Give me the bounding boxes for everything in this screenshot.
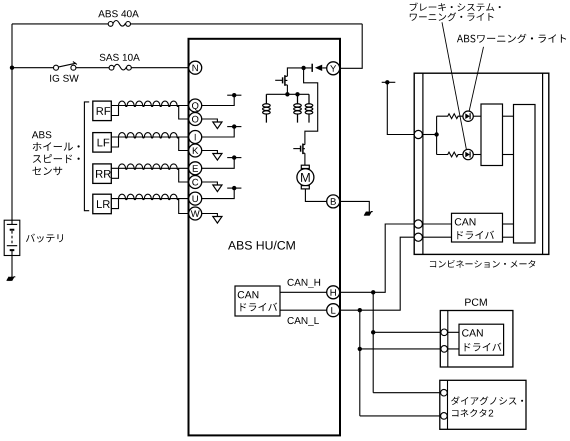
label CAN_H — [288, 279, 321, 288]
wire CAN L trunk down — [359, 310, 361, 416]
pin N — [189, 61, 202, 74]
node L branch — [358, 308, 362, 312]
pin E — [189, 162, 202, 175]
node rail Q1 — [285, 92, 289, 96]
label brake system warning light line1 — [410, 3, 501, 12]
wire RR signal lead — [111, 167, 188, 169]
pin W — [189, 207, 202, 220]
rail internal supply (RF) — [227, 94, 241, 96]
ground battery — [7, 277, 15, 281]
wire lamp2 to driver IC — [473, 154, 481, 156]
label PCM — [465, 299, 487, 306]
pin Y — [327, 62, 340, 75]
label wheel speed sensor line3 — [33, 154, 80, 163]
wire IC to MCU row2 — [503, 154, 514, 156]
IC lamp driver (meter) — [481, 104, 503, 166]
node IG feed — [385, 80, 389, 84]
wire motor to pin B — [305, 189, 326, 202]
wire IG feed — [12, 67, 189, 69]
rail internal supply (LR) — [227, 187, 241, 189]
node rail LR — [232, 186, 236, 190]
arrow internal ground RF — [213, 122, 222, 129]
wire LR signal lead — [111, 198, 188, 200]
pin U — [189, 192, 202, 205]
node meter split — [434, 132, 438, 136]
pin DLC CAN H — [441, 389, 448, 396]
wire pin tap LR high — [202, 188, 235, 199]
wire battery vertical — [11, 24, 13, 220]
label ABS warning light — [457, 34, 566, 43]
wire H to PCM — [373, 331, 441, 333]
node L to PCM — [358, 347, 362, 351]
pin B — [327, 195, 340, 208]
label CAN driver (ABS) — [240, 303, 277, 312]
wire pin tap RF low — [202, 119, 218, 122]
wire top feed to Y — [340, 24, 362, 68]
wire L to PCM — [360, 348, 441, 350]
wire FET1 drain to diode node — [287, 68, 303, 76]
wire CAN H trunk down — [372, 292, 374, 392]
wire pin tap LF high — [202, 127, 235, 137]
label brake system warning light line2 — [410, 12, 494, 21]
wire PCM pins to CAN box — [448, 332, 460, 349]
inductor solenoid valve L1 — [263, 94, 271, 122]
lamp ABS warning light — [463, 149, 473, 159]
resistor brake warning — [437, 114, 463, 119]
motor M (pump) — [297, 165, 314, 189]
arrow internal ground RR — [213, 185, 222, 192]
battery BT — [4, 220, 20, 255]
pin H — [327, 286, 340, 299]
label DLC line2 — [452, 409, 487, 417]
sensor LF box — [93, 133, 112, 153]
label LF — [98, 139, 110, 147]
arrow internal ground LR — [213, 217, 222, 224]
node diode junction — [301, 66, 305, 70]
label SAS 10A — [100, 54, 140, 61]
wire meter CAN box to MCU 1 — [503, 223, 514, 225]
pin C — [189, 176, 202, 189]
fuse SAS 10A — [109, 64, 131, 70]
wire Q2 source to motor — [304, 153, 306, 165]
wire LF return lead — [179, 137, 189, 151]
pin PCM CAN H — [441, 329, 448, 336]
inductor solenoid valve L3 — [305, 94, 313, 122]
wire pin tap LR low — [202, 214, 218, 217]
node rail solenoid2 — [295, 92, 299, 96]
PCM box — [440, 311, 513, 368]
sensor RR box — [93, 164, 112, 184]
label combination meter — [430, 260, 536, 268]
coil LF (sensor winding) — [111, 133, 178, 147]
wire RF return lead — [179, 106, 189, 120]
node H branch — [371, 290, 375, 294]
rail internal supply (LF) — [227, 126, 241, 128]
coil RF (sensor winding) — [111, 101, 178, 115]
wire H to DLC — [373, 392, 441, 394]
wire Q1 source to solenoid rail — [286, 85, 288, 94]
pin meter CAN H — [414, 220, 422, 228]
wire LF signal lead — [111, 136, 188, 138]
label CAN (meter) — [455, 218, 476, 225]
pin O — [189, 113, 202, 126]
node battery/IG junction — [10, 66, 14, 70]
label CAN driver (meter) — [457, 231, 494, 240]
wire meter pin L to CAN box — [422, 236, 451, 238]
label IG SW — [50, 75, 78, 82]
label LR — [97, 200, 110, 208]
sensor RF box — [93, 101, 112, 121]
CAN driver box (PCM) — [459, 324, 504, 355]
pin L — [327, 304, 340, 317]
pin K — [189, 144, 202, 157]
ground motor B — [364, 212, 372, 216]
node rail RF — [232, 93, 236, 97]
coil RR (sensor winding) — [111, 164, 178, 178]
label battery — [26, 234, 63, 243]
combination meter box — [414, 73, 549, 254]
pin DLC CAN L — [441, 413, 448, 420]
label CAN (PCM) — [462, 329, 483, 336]
wire L to DLC — [360, 415, 441, 417]
ABS HU/CM unit box — [189, 39, 341, 436]
wire IG feed to meter — [387, 82, 414, 134]
label CAN driver (PCM) — [465, 343, 502, 352]
wire pin tap RR low — [202, 182, 218, 185]
switch IG SW — [54, 62, 77, 71]
wire CAN_L — [280, 309, 327, 311]
rail internal supply (RR) — [227, 157, 241, 159]
wire IC to MCU row1 — [503, 115, 514, 117]
bracket sensor group — [84, 102, 89, 211]
label ABS 40A — [98, 10, 139, 17]
pin meter IG — [414, 130, 422, 138]
wire RR return lead — [179, 168, 189, 182]
IC meter MCU — [514, 105, 536, 244]
label RR — [96, 170, 111, 178]
node H to PCM — [371, 330, 375, 334]
resistor ABS warning — [437, 152, 463, 157]
label ABS wheel speed sensor (ABS) — [32, 131, 52, 138]
diode D1 — [304, 64, 327, 72]
pin Q — [189, 99, 202, 112]
leader brake warning light — [442, 22, 466, 149]
wire CAN_H — [280, 291, 327, 293]
label wheel speed sensor line2 — [33, 142, 80, 151]
wire battery B+ feed (top) — [12, 23, 362, 25]
leader ABS warning light — [469, 47, 483, 111]
label CAN_L — [288, 317, 319, 326]
label DLC line1 — [451, 396, 523, 405]
node rail LF — [232, 124, 236, 128]
sensor LR box — [93, 194, 112, 214]
wire pin tap LF low — [202, 151, 218, 154]
wire meter pin H to CAN box — [422, 223, 451, 225]
transistor Q2 (FET) — [293, 144, 305, 155]
wire split vertical — [436, 116, 438, 154]
pin I — [189, 131, 202, 144]
wire pin tap RR high — [202, 158, 235, 169]
wire meter feed split — [422, 134, 436, 136]
inductor solenoid valve L2 — [294, 94, 302, 122]
wire pin B to ground — [340, 201, 370, 211]
wire H to meter — [340, 224, 414, 292]
pin PCM CAN L — [441, 346, 448, 353]
transistor Q1 (FET) — [275, 75, 287, 86]
coil LR (sensor winding) — [111, 194, 178, 208]
wire LR return lead — [179, 199, 189, 214]
wire diode node to Q2 drain — [304, 68, 318, 145]
label wheel speed sensor line4 — [32, 167, 62, 176]
arrow internal ground LF — [213, 154, 222, 161]
wire battery to ground — [11, 256, 13, 278]
wire pin tap RF high — [202, 95, 235, 105]
wire L to meter — [340, 237, 414, 310]
rail IG feed (meter) — [382, 81, 396, 83]
DLC box — [440, 380, 526, 429]
lamp brake system warning light — [463, 111, 473, 121]
label RF — [97, 107, 111, 115]
CAN driver box (ABS) — [235, 286, 280, 316]
wire RF signal lead — [111, 105, 188, 107]
fuse ABS 40A — [108, 21, 130, 27]
label DLC digit 2 — [489, 410, 494, 417]
label ABS HU/CM — [228, 241, 295, 250]
wire meter CAN box to MCU 2 — [503, 236, 514, 238]
pin meter CAN L — [414, 233, 422, 241]
CAN driver box (meter) — [452, 213, 503, 242]
rail solenoid supply — [266, 93, 309, 95]
node rail RR — [232, 155, 236, 159]
wire lamp1 to driver IC — [473, 115, 481, 117]
label CAN (ABS) — [238, 291, 259, 298]
